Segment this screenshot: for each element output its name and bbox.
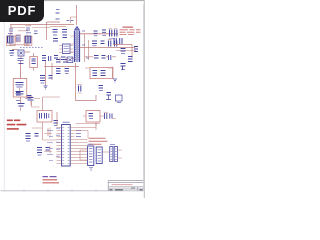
page top edge [0, 0, 145, 2]
switching IC U1 [59, 44, 73, 54]
red annotation under mcu line2 [43, 179, 58, 181]
wire rail y26 [50, 26, 66, 28]
connector J4 row B [114, 147, 117, 162]
mcu left pin labels [47, 131, 53, 161]
wire AC line top rail [10, 24, 74, 26]
resistor network RN1 [37, 148, 42, 156]
capacitor C22 cluster [108, 40, 112, 47]
mcu pin labels right [76, 131, 81, 137]
diode D4 [16, 93, 21, 96]
capacitor C8 [65, 69, 70, 74]
snubber diode D1 [62, 30, 67, 38]
capacitor inside module [16, 88, 24, 94]
zener diode D5 [16, 101, 25, 107]
frame bottom tick marks [24, 190, 120, 191]
label U5 name [63, 121, 70, 123]
wire mcu supply [56, 112, 58, 126]
diode D15 inside [89, 114, 94, 119]
label J4 [110, 144, 115, 146]
filter capacitor bank C20 [109, 29, 118, 37]
common-mode choke LF2 winding B [25, 36, 32, 43]
red annotation text line3 [7, 128, 19, 130]
bulk capacitor C1 (red outline) [30, 57, 38, 68]
wire choke connections [10, 35, 27, 47]
wire secondary mid rail [80, 47, 135, 49]
red note mid line1 [89, 137, 106, 139]
startup resistor R2 [53, 30, 58, 36]
wire bottom feedback [76, 95, 96, 101]
gate resistor cluster [56, 60, 68, 63]
microcontroller U5 body [62, 125, 71, 167]
transformer T1 primary winding [74, 31, 76, 62]
crystal Y1 [40, 113, 49, 119]
connector J2 body [88, 146, 94, 166]
auxiliary module box (red) [13, 79, 27, 98]
drawing frame right border [142, 4, 144, 191]
transformer T1 label arrow [74, 27, 79, 31]
capacitor CX1 [9, 25, 13, 35]
bias diode D6 [49, 76, 53, 79]
cap C50 cluster [104, 112, 112, 119]
wire secondary top rail [80, 33, 118, 35]
title block red title text [112, 184, 133, 186]
wire output sense [116, 50, 136, 52]
capacitor C12 cluster [78, 85, 82, 93]
wire feedback top [85, 67, 113, 79]
resistor R7 [56, 69, 61, 74]
wire to lower left [20, 67, 22, 78]
resistor divider stack [19, 63, 24, 65]
connector J4 row A [110, 147, 113, 162]
wire connector feeds [80, 150, 122, 160]
choke module outline (red) [7, 36, 15, 46]
wire aux links [83, 116, 116, 126]
wire mcu top rail [76, 124, 101, 131]
red annotation under mcu line3 [43, 182, 60, 184]
resistor R25 [101, 71, 106, 76]
opto feedback parts [61, 57, 73, 63]
wire bridge output [12, 50, 30, 60]
resistor R31 [121, 49, 126, 54]
resistor R41 [26, 134, 31, 142]
PDF badge [0, 0, 44, 22]
label T1 pin marks [82, 31, 89, 58]
zener stack lower [121, 64, 126, 71]
transformer T1 secondary winding [78, 31, 80, 62]
wire IC upper right nets [75, 128, 97, 139]
aux supply box top (red) [86, 111, 100, 123]
choke module 2 outline (red) [24, 36, 32, 45]
varistor RV1 small marks [34, 31, 38, 34]
red note top-right [120, 27, 141, 34]
wire IC bottom [60, 57, 66, 62]
wire secondary verticals [85, 34, 89, 62]
red annotation under mcu line1 [43, 176, 57, 178]
resistor R14 [99, 86, 104, 91]
resistor R21 [101, 41, 105, 44]
title block outline [108, 181, 143, 191]
capacitor CY1 [16, 36, 21, 42]
wire output node [113, 45, 132, 59]
regulator cluster [116, 95, 123, 103]
connector J3 body [96, 147, 102, 164]
wire mcu left pin stubs [44, 128, 52, 154]
node HV [56, 18, 60, 20]
microcontroller U5 pin numbers right [68, 128, 70, 164]
red annotation text line2 [7, 124, 27, 126]
wire mid-left joints [18, 95, 33, 97]
terminal cluster right [134, 47, 138, 52]
transformer T1 core [76, 31, 79, 62]
secondary lower parts row [94, 55, 111, 60]
capacitor C23 cluster [115, 41, 117, 47]
bridge rectifier BR1 [18, 50, 24, 56]
wire lower-left links [21, 101, 40, 111]
wire AC neutral rail [10, 28, 50, 31]
wire HV riser [76, 5, 78, 25]
resistor R11 [27, 96, 32, 99]
shield dashed boundary [20, 46, 44, 48]
microcontroller U5 left pin stubs [57, 128, 62, 164]
ground symbol secondary [113, 79, 117, 82]
thermistor RT1 [18, 59, 24, 61]
wire primary stubs [71, 36, 75, 59]
drawing frame left border [3, 13, 5, 191]
capacitor CX2 [26, 25, 31, 30]
output electrolytic caps C30 [114, 38, 122, 44]
label left pins U5 [56, 128, 60, 156]
primary side controller cluster [42, 56, 58, 62]
output rectifier D10 [94, 31, 98, 36]
page right edge [143, 0, 145, 198]
capacitor C2 left of bridge [10, 51, 15, 56]
varistor inside module [16, 83, 24, 88]
sense resistor cluster [40, 76, 45, 84]
wire snubber top [71, 17, 77, 23]
red annotation text line1 [7, 119, 20, 121]
capacitor C43 [46, 148, 50, 151]
inductor L2 [92, 41, 97, 46]
common-mode choke LF1 winding A [7, 36, 14, 43]
transistor Q3 [106, 93, 111, 101]
wire module bottom [20, 97, 22, 103]
fuse F1 [56, 10, 60, 14]
capacitor C40 [54, 121, 59, 126]
capacitor C4 [53, 39, 58, 42]
wire input to switcher [47, 22, 61, 40]
mcu right bus wires [75, 140, 88, 164]
microcontroller U5 pin numbers left [62, 128, 64, 164]
cap CY1 outline (red) [16, 35, 20, 42]
drawing frame bottom border [1, 190, 144, 192]
wire standby rail [43, 97, 60, 111]
wire left column [20, 61, 22, 67]
diode D12 [35, 134, 39, 137]
resistor R12 [28, 98, 34, 101]
TL431 U3 [93, 71, 98, 76]
wire feedback rail [44, 66, 79, 68]
red note mid line2 [89, 140, 108, 142]
title block small text row [110, 189, 143, 191]
resistor R32 [128, 57, 133, 62]
node label N1 [67, 20, 74, 22]
snubber RC on secondary [102, 30, 106, 36]
feedback network box (red) [90, 68, 113, 79]
choke LF1 label [26, 32, 31, 34]
ground under connector J2 [89, 168, 93, 171]
wire vertical drops [46, 61, 76, 101]
wire bulk cap top [33, 53, 35, 71]
microcontroller U5 right pin stubs [70, 128, 74, 164]
node L [10, 44, 30, 46]
wire lower row [85, 56, 117, 58]
label J2 [88, 143, 93, 145]
label C20 value [109, 38, 115, 40]
title block sheet text [131, 187, 135, 189]
wire mcu left links [32, 122, 57, 140]
wire cross link [25, 99, 40, 106]
resistor R1 label [8, 33, 13, 35]
red note mid line3 [89, 143, 102, 145]
crystal circuit box (red) [37, 111, 52, 123]
ground symbol primary [44, 86, 48, 89]
